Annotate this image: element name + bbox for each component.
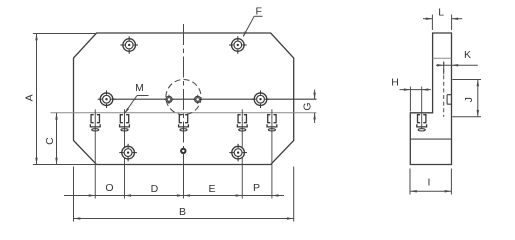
extension line J bottom [452, 116, 481, 118]
arrow I left [410, 190, 417, 193]
svg-text:J: J [463, 97, 475, 102]
dimension line A [36, 34, 38, 165]
arrow B right [287, 217, 294, 220]
leader line M [125, 96, 137, 114]
arrow B left [74, 217, 81, 220]
svg-text:M: M [135, 82, 144, 94]
leader arrow F [243, 31, 247, 37]
arrow E right / P shared [236, 194, 243, 197]
extension line L left [431, 15, 433, 31]
extension line B left [73, 167, 75, 222]
extension line J top [452, 79, 481, 81]
svg-text:O: O [105, 182, 113, 194]
arrow J bottom [477, 110, 480, 117]
small hole in ring right [193, 95, 202, 104]
svg-text:D: D [151, 183, 159, 195]
screw hole bottom-left [119, 144, 137, 162]
dimension line I [410, 190, 451, 192]
dimension line J [477, 80, 479, 117]
node - small center ring on centerline [181, 149, 185, 153]
svg-text:I: I [427, 177, 430, 189]
extension line x=95.25 [94, 109, 96, 198]
extension line bottom for A/C [33, 164, 97, 166]
leader underline F [254, 15, 262, 17]
screw hole bottom-right [229, 144, 247, 162]
dashed circle - locating ring [166, 80, 201, 115]
arrow C top [55, 113, 58, 120]
arrow I right [445, 190, 452, 193]
arrow G top [313, 93, 316, 100]
notch rectangle on right edge of side view [447, 95, 451, 105]
dimension line B [74, 218, 294, 220]
extension line top for A [33, 33, 97, 35]
svg-text:P: P [253, 182, 260, 194]
wire - side view top chamfer line [433, 57, 452, 59]
svg-text:F: F [255, 6, 261, 18]
extension line B right [293, 167, 295, 222]
arrow K left [437, 64, 444, 67]
svg-text:E: E [208, 183, 215, 195]
vertical centerline (dashed) [183, 24, 185, 149]
side view outline (L-section) [410, 33, 451, 165]
dimension line O/D/E/P [64, 195, 284, 197]
svg-text:K: K [464, 49, 471, 61]
extension line H left [409, 87, 411, 112]
arrow E left [184, 194, 191, 197]
arrow A top [35, 34, 38, 41]
extension/center line of side pin [421, 87, 423, 129]
extension line x=242.25 [241, 109, 243, 198]
dimension line G upper tail [314, 90, 316, 100]
arrow G bottom [313, 113, 316, 120]
arrow O left (outside) [89, 194, 96, 197]
arrow C bottom [55, 158, 58, 165]
arrow O/D shared [125, 194, 132, 197]
svg-text:G: G [302, 102, 314, 110]
arrow L left [426, 17, 433, 20]
dimension line L right tail [452, 18, 463, 20]
dimension line C [56, 113, 58, 165]
screw hole mid-right [252, 90, 270, 108]
extension line L right [451, 15, 453, 31]
arrow A bottom [35, 158, 38, 165]
extension line I left [409, 169, 411, 195]
small hole in ring left [164, 95, 173, 104]
arrow K right [452, 64, 459, 67]
counterbored screw pin at x=242.25 [237, 114, 247, 131]
arrow L right [452, 17, 459, 20]
arrow D right [177, 194, 184, 197]
screw hole top-right (F) [229, 36, 247, 54]
extension line x=124.5 [124, 109, 126, 198]
svg-text:A: A [23, 94, 35, 101]
wire - side view bottom flange line [410, 138, 451, 140]
arrow H left (outside) [404, 88, 411, 91]
counterbored screw pin side view [417, 114, 427, 131]
wire - centerline solid extension to dimension line [183, 153, 185, 198]
screw hole top-left [120, 36, 138, 54]
counterbored screw pin at x=271.9 [267, 114, 277, 131]
extension line I right [450, 169, 452, 195]
arrow J top [477, 80, 480, 87]
extension line x=271.9 [271, 109, 273, 198]
extension line K [443, 62, 445, 75]
screw hole mid-left [98, 90, 116, 108]
dimension line K [436, 64, 478, 66]
dimension line G lower tail [314, 113, 316, 123]
dimension line H [400, 89, 431, 91]
counterbored screw pin at x=183.5 [179, 114, 189, 131]
leader line F [243, 16, 254, 36]
svg-text:C: C [44, 137, 56, 145]
leader underline M [137, 95, 149, 97]
svg-text:L: L [438, 6, 444, 18]
svg-text:H: H [391, 77, 399, 89]
hidden dashed line in side view [443, 62, 445, 117]
arrow H right (outside) [422, 88, 429, 91]
plate outline (front view, chamfered corners) [74, 33, 294, 165]
arrow P right (outside) [272, 194, 279, 197]
counterbored screw pin at x=95.25 [90, 114, 100, 131]
wire - lower horizontal feature line (extends left for C, right for G) [51, 112, 317, 114]
svg-text:B: B [179, 206, 186, 218]
counterbored screw pin at x=124.5 [120, 114, 130, 131]
wire - upper horizontal feature line [107, 98, 317, 100]
dimension line L left tail [423, 18, 432, 20]
leader arrow M [125, 108, 129, 114]
